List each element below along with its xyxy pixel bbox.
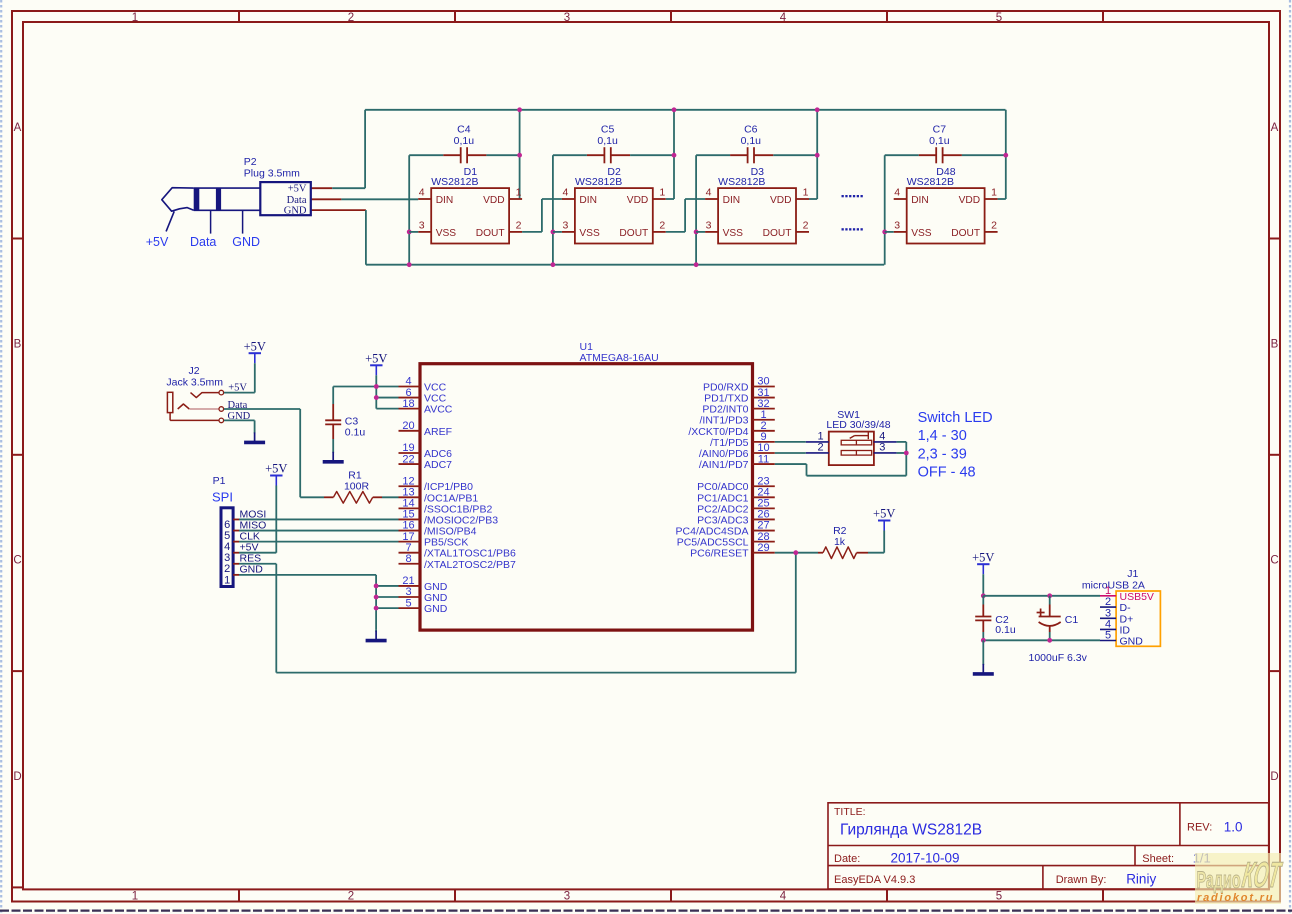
svg-text:+5V: +5V — [265, 462, 287, 476]
svg-text:2: 2 — [991, 219, 997, 231]
svg-text:1: 1 — [516, 187, 522, 199]
svg-text:Drawn By:: Drawn By: — [1056, 874, 1107, 886]
svg-text:5: 5 — [1105, 630, 1111, 642]
svg-text:1: 1 — [991, 187, 997, 199]
svg-text:GND: GND — [284, 206, 307, 217]
svg-text:5: 5 — [996, 891, 1002, 903]
svg-text:4: 4 — [706, 187, 712, 199]
svg-text:4: 4 — [894, 187, 900, 199]
svg-text:C6: C6 — [744, 123, 758, 135]
svg-text:C5: C5 — [601, 123, 615, 135]
svg-text:VSS: VSS — [579, 228, 600, 239]
svg-text:TITLE:: TITLE: — [834, 806, 866, 818]
svg-text:3: 3 — [706, 219, 712, 231]
svg-text:GND: GND — [1120, 636, 1144, 648]
svg-text:C1: C1 — [1065, 614, 1079, 626]
svg-text:1: 1 — [132, 891, 138, 903]
svg-text:0,1u: 0,1u — [741, 135, 762, 147]
svg-text:C: C — [1270, 555, 1278, 567]
svg-text:ADC7: ADC7 — [424, 459, 452, 471]
svg-text:Радио: Радио — [1197, 868, 1241, 895]
svg-text:+5V: +5V — [873, 507, 895, 521]
svg-text:R1: R1 — [348, 469, 362, 481]
svg-text:4: 4 — [780, 891, 787, 903]
svg-text:0.1u: 0.1u — [995, 624, 1016, 636]
svg-text:WS2812B: WS2812B — [575, 176, 622, 188]
svg-text:Гирлянда WS2812B: Гирлянда WS2812B — [840, 821, 982, 838]
svg-text:USB5V: USB5V — [1120, 591, 1154, 603]
svg-text:DOUT: DOUT — [476, 228, 505, 239]
svg-text:0,1u: 0,1u — [929, 135, 950, 147]
svg-text:Riniy: Riniy — [1126, 872, 1156, 887]
svg-text:REV:: REV: — [1187, 822, 1212, 834]
svg-text:1.0: 1.0 — [1224, 819, 1243, 834]
svg-text:/AIN1/PD7: /AIN1/PD7 — [699, 459, 749, 471]
svg-text:VDD: VDD — [959, 195, 981, 206]
svg-text:2: 2 — [348, 12, 354, 24]
svg-text:C7: C7 — [933, 123, 947, 135]
svg-text:29: 29 — [757, 542, 769, 554]
svg-text:18: 18 — [402, 398, 414, 410]
svg-text:+5V: +5V — [365, 351, 387, 365]
svg-text:EasyEDA V4.9.3: EasyEDA V4.9.3 — [834, 874, 915, 886]
svg-text:2: 2 — [803, 219, 809, 231]
svg-text:1,4 - 30: 1,4 - 30 — [918, 428, 967, 444]
svg-text:2: 2 — [817, 441, 823, 453]
svg-text:КОТ: КОТ — [1240, 856, 1285, 896]
svg-text:D: D — [1270, 771, 1278, 783]
svg-text:1: 1 — [659, 187, 665, 199]
svg-text:D: D — [13, 771, 21, 783]
svg-text:SPI: SPI — [212, 490, 233, 505]
svg-text:B: B — [14, 339, 22, 351]
svg-text:Jack 3.5mm: Jack 3.5mm — [166, 377, 223, 389]
svg-text:+5V: +5V — [244, 339, 266, 353]
svg-text:AVCC: AVCC — [424, 404, 453, 416]
svg-text:3: 3 — [894, 219, 900, 231]
svg-text:GND: GND — [424, 603, 448, 615]
svg-text:Data: Data — [190, 235, 216, 249]
svg-text:3: 3 — [564, 12, 570, 24]
svg-text:1: 1 — [132, 12, 138, 24]
svg-text:GND: GND — [240, 564, 264, 576]
svg-text:WS2812B: WS2812B — [718, 176, 765, 188]
svg-text:1: 1 — [803, 187, 809, 199]
svg-text:radiokot.ru: radiokot.ru — [1197, 892, 1274, 904]
svg-text:VDD: VDD — [483, 195, 505, 206]
svg-text:2: 2 — [659, 219, 665, 231]
svg-text:VSS: VSS — [436, 228, 457, 239]
svg-text:WS2812B: WS2812B — [907, 176, 954, 188]
svg-text:Switch LED: Switch LED — [918, 410, 993, 426]
svg-text:DIN: DIN — [579, 195, 597, 206]
svg-text:1: 1 — [224, 574, 230, 586]
svg-text:VDD: VDD — [627, 195, 649, 206]
svg-text:A: A — [1271, 122, 1279, 134]
svg-text:VDD: VDD — [770, 195, 792, 206]
svg-text:Data: Data — [287, 195, 307, 206]
svg-text:WS2812B: WS2812B — [431, 176, 478, 188]
svg-text:PC6/RESET: PC6/RESET — [690, 548, 749, 560]
svg-text:Date:: Date: — [834, 853, 860, 865]
svg-text:2: 2 — [1105, 596, 1111, 608]
svg-text:1: 1 — [1105, 585, 1111, 597]
svg-text:/XTAL2TOSC2/PB7: /XTAL2TOSC2/PB7 — [424, 559, 516, 571]
svg-text:3: 3 — [419, 219, 425, 231]
svg-text:11: 11 — [758, 453, 769, 465]
svg-text:3: 3 — [562, 219, 568, 231]
svg-text:AREF: AREF — [424, 426, 452, 438]
svg-text:20: 20 — [402, 420, 414, 432]
svg-text:U1: U1 — [580, 341, 594, 353]
svg-text:P1: P1 — [213, 475, 226, 487]
svg-text:J2: J2 — [189, 365, 200, 377]
svg-text:+5V: +5V — [972, 550, 994, 564]
svg-text:4: 4 — [780, 12, 787, 24]
svg-text:ATMEGA8-16AU: ATMEGA8-16AU — [580, 352, 659, 364]
svg-text:3: 3 — [879, 441, 885, 453]
svg-text:2: 2 — [516, 219, 522, 231]
svg-text:DOUT: DOUT — [763, 228, 792, 239]
svg-text:+5V: +5V — [288, 184, 307, 195]
svg-text:DIN: DIN — [723, 195, 741, 206]
svg-text:DOUT: DOUT — [619, 228, 648, 239]
svg-text:5: 5 — [996, 12, 1002, 24]
svg-text:GND: GND — [232, 235, 260, 249]
svg-text:8: 8 — [405, 553, 411, 565]
svg-text:2017-10-09: 2017-10-09 — [891, 850, 960, 865]
svg-text:22: 22 — [402, 453, 414, 465]
svg-text:A: A — [14, 122, 22, 134]
svg-text:P2: P2 — [244, 156, 257, 168]
svg-text:Plug 3.5mm: Plug 3.5mm — [244, 167, 300, 179]
svg-text:0,1u: 0,1u — [454, 135, 475, 147]
svg-text:microUSB 2A: microUSB 2A — [1082, 579, 1145, 591]
svg-text:OFF - 48: OFF - 48 — [918, 464, 976, 480]
svg-text:DIN: DIN — [436, 195, 454, 206]
svg-text:B: B — [1271, 339, 1279, 351]
svg-text:C: C — [13, 555, 21, 567]
svg-text:+5V: +5V — [146, 235, 169, 249]
svg-text:1000uF 6.3v: 1000uF 6.3v — [1029, 652, 1088, 664]
svg-text:3: 3 — [564, 891, 570, 903]
svg-text:5: 5 — [405, 597, 411, 609]
svg-text:LED 30/39/48: LED 30/39/48 — [826, 419, 890, 431]
svg-text:0,1u: 0,1u — [597, 135, 618, 147]
svg-text:4: 4 — [419, 187, 425, 199]
svg-text:0.1u: 0.1u — [345, 426, 366, 438]
svg-text:DIN: DIN — [911, 195, 929, 206]
svg-text:100R: 100R — [344, 481, 370, 493]
svg-text:4: 4 — [562, 187, 568, 199]
svg-text:D-: D- — [1120, 602, 1132, 614]
svg-text:VSS: VSS — [911, 228, 932, 239]
svg-text:C4: C4 — [457, 123, 471, 135]
svg-text:2,3 - 39: 2,3 - 39 — [918, 446, 967, 462]
svg-text:Sheet:: Sheet: — [1142, 853, 1174, 865]
svg-text:VSS: VSS — [723, 228, 744, 239]
svg-text:1k: 1k — [834, 536, 846, 548]
svg-text:DOUT: DOUT — [951, 228, 980, 239]
svg-text:2: 2 — [348, 891, 354, 903]
